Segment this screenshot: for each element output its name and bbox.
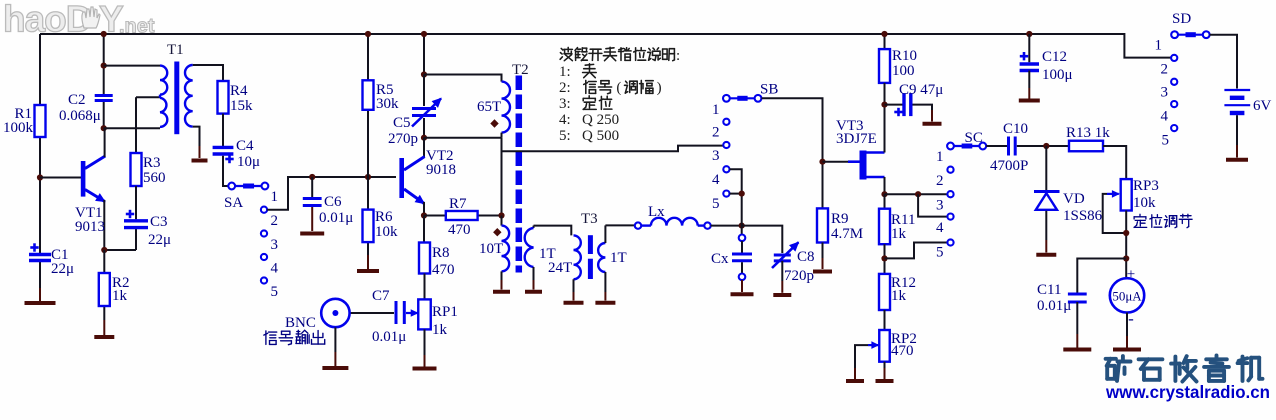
svg-text:R8: R8 [432, 245, 450, 261]
svg-text:4: 4 [271, 261, 279, 277]
svg-text:SA: SA [224, 195, 243, 211]
svg-text:4700P: 4700P [990, 158, 1028, 174]
svg-text:C9 47μ: C9 47μ [899, 82, 943, 98]
svg-text:5: 5 [712, 196, 720, 212]
svg-text:T1: T1 [167, 42, 184, 58]
svg-text:720p: 720p [784, 268, 814, 284]
svg-text:SB: SB [760, 82, 778, 98]
svg-text:3: 3 [271, 237, 279, 253]
svg-text:C12: C12 [1042, 49, 1067, 65]
svg-text:5:: 5: [559, 128, 571, 144]
svg-text:2: 2 [1161, 62, 1169, 78]
svg-text:1: 1 [936, 149, 944, 165]
svg-text:R13 1k: R13 1k [1066, 125, 1110, 141]
svg-text:BNC: BNC [285, 315, 316, 331]
svg-text:C11: C11 [1037, 282, 1061, 298]
svg-text:C2: C2 [68, 92, 86, 108]
svg-text:T3: T3 [581, 211, 598, 227]
svg-text:22μ: 22μ [148, 232, 171, 248]
svg-text:1k: 1k [891, 226, 907, 242]
svg-text:22μ: 22μ [51, 261, 74, 277]
svg-text:0.01μ: 0.01μ [319, 210, 353, 226]
svg-text:1SS86: 1SS86 [1063, 208, 1103, 224]
svg-text:R3: R3 [143, 155, 161, 171]
svg-text:10k: 10k [375, 224, 398, 240]
svg-text:1T: 1T [610, 250, 627, 266]
svg-text:560: 560 [143, 170, 166, 186]
svg-text:10k: 10k [1133, 195, 1156, 211]
svg-text:SC: SC [965, 130, 983, 146]
svg-text:-: - [1128, 309, 1134, 328]
svg-text:4: 4 [1161, 109, 1169, 125]
svg-text:1: 1 [712, 102, 720, 118]
svg-text:10T: 10T [479, 241, 503, 257]
svg-text:4:: 4: [559, 112, 571, 128]
svg-text:T2: T2 [512, 62, 529, 78]
svg-text:1: 1 [1155, 38, 1163, 54]
svg-text:Cx: Cx [711, 251, 729, 267]
svg-text:): ) [657, 80, 662, 96]
svg-text:3DJ7E: 3DJ7E [836, 131, 877, 147]
svg-text:65T: 65T [477, 99, 501, 115]
svg-text:2: 2 [936, 173, 944, 189]
svg-text:4: 4 [936, 220, 944, 236]
svg-text:5: 5 [1162, 133, 1170, 149]
svg-text:(: ( [616, 80, 621, 96]
svg-text:0.01μ: 0.01μ [1037, 298, 1071, 314]
svg-text:1k: 1k [432, 322, 448, 338]
svg-text:C7: C7 [372, 288, 390, 304]
svg-text:470: 470 [448, 222, 471, 238]
svg-text:3: 3 [712, 148, 720, 164]
svg-text:Lx: Lx [648, 204, 665, 220]
svg-text:1:: 1: [559, 64, 571, 80]
svg-text:haoD: haoD [3, 0, 92, 40]
svg-text:470: 470 [891, 343, 914, 359]
svg-text:100k: 100k [3, 120, 34, 136]
svg-text:.net: .net [119, 16, 155, 38]
svg-text:5: 5 [936, 245, 944, 261]
svg-text:C5: C5 [393, 115, 411, 131]
svg-text:R6: R6 [375, 209, 393, 225]
svg-text:3:: 3: [559, 96, 571, 112]
svg-text:www.crystalradio.cn: www.crystalradio.cn [1105, 382, 1270, 402]
svg-text:24T: 24T [548, 260, 572, 276]
svg-text:RP1: RP1 [432, 304, 458, 320]
svg-text:3: 3 [936, 198, 944, 214]
svg-text:1k: 1k [891, 288, 907, 304]
svg-text:5: 5 [271, 284, 279, 300]
svg-text:RP3: RP3 [1133, 178, 1159, 194]
svg-text:R4: R4 [230, 83, 248, 99]
svg-text:100μ: 100μ [1042, 67, 1073, 83]
svg-text:Q 500: Q 500 [582, 128, 619, 144]
svg-text:SD: SD [1172, 11, 1191, 27]
svg-text:2: 2 [712, 125, 720, 141]
svg-text:C10: C10 [1003, 121, 1028, 137]
svg-text:3: 3 [1161, 85, 1169, 101]
svg-text:C3: C3 [150, 214, 168, 230]
svg-text:270p: 270p [388, 131, 418, 147]
svg-text:6V: 6V [1253, 98, 1272, 114]
svg-text:470: 470 [432, 262, 455, 278]
svg-text:9018: 9018 [426, 162, 456, 178]
svg-text:VD: VD [1063, 191, 1085, 207]
svg-text:R9: R9 [831, 211, 849, 227]
svg-text:Q 250: Q 250 [582, 112, 619, 128]
svg-text:C4: C4 [236, 138, 254, 154]
svg-text:30k: 30k [376, 96, 399, 112]
svg-text:15k: 15k [230, 98, 253, 114]
svg-text:0.01μ: 0.01μ [372, 329, 406, 345]
svg-text:100: 100 [892, 63, 915, 79]
svg-text:C8: C8 [797, 249, 815, 265]
svg-text:R7: R7 [449, 196, 467, 212]
svg-text:2: 2 [271, 213, 279, 229]
svg-text:1k: 1k [112, 288, 128, 304]
svg-text:4: 4 [712, 172, 720, 188]
svg-text:2:: 2: [559, 80, 571, 96]
svg-text:C6: C6 [324, 194, 342, 210]
svg-text:50μA: 50μA [1112, 289, 1142, 304]
svg-text:1: 1 [271, 189, 279, 205]
svg-text:9013: 9013 [75, 219, 105, 235]
svg-text::: : [676, 48, 680, 64]
svg-text:0.068μ: 0.068μ [59, 108, 101, 124]
svg-text:+: + [1127, 267, 1135, 283]
svg-text:10μ: 10μ [237, 154, 260, 170]
svg-text:4.7M: 4.7M [831, 226, 863, 242]
svg-text:R10: R10 [892, 48, 917, 64]
